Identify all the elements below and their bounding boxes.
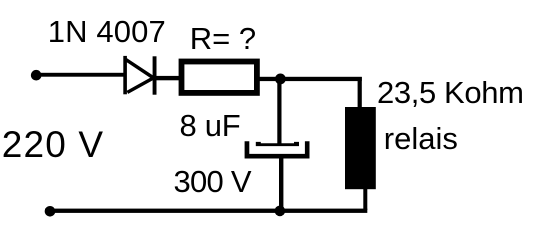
- node: bottom-left supply terminal: [45, 206, 56, 217]
- wire: top-left terminal to diode anode: [34, 73, 126, 77]
- capacitor C1 bottom plate (cup): [245, 141, 310, 158]
- diode D1 triangle: [125, 59, 153, 92]
- wire: resistor to right corner: [260, 77, 362, 81]
- label: capacitor rating "300 V": [174, 166, 251, 197]
- relay coil K1 (black box): [345, 107, 376, 189]
- node: bottom junction (capacitor to return wire): [275, 206, 286, 217]
- wire: junction down to capacitor top plate: [277, 79, 281, 144]
- wire: capacitor bottom plate down to return wire: [279, 159, 283, 211]
- label: relay resistance "23,5 Kohm": [377, 77, 524, 108]
- wire: relay bottom stem: [363, 189, 367, 210]
- wire: bottom horizontal return: [45, 209, 367, 213]
- diode D1 cathode bar: [153, 56, 157, 94]
- wire: diode cathode to resistor: [154, 76, 180, 80]
- label: supply voltage "220 V": [2, 126, 104, 163]
- label: relay name "relais": [384, 123, 458, 154]
- node: top-left supply terminal: [31, 70, 42, 81]
- label: diode value "1N 4007": [48, 16, 166, 47]
- resistor R (R= ?) body: [182, 62, 257, 93]
- label: capacitor value "8 uF": [180, 110, 241, 141]
- diode D1 anode bar: [123, 56, 127, 94]
- wire: right corner down to relay top: [358, 77, 362, 108]
- node: junction of resistor, capacitor and relay branch: [275, 74, 286, 85]
- capacitor C1 top plate: [256, 142, 299, 146]
- label: resistor value "R= ?": [190, 23, 256, 54]
